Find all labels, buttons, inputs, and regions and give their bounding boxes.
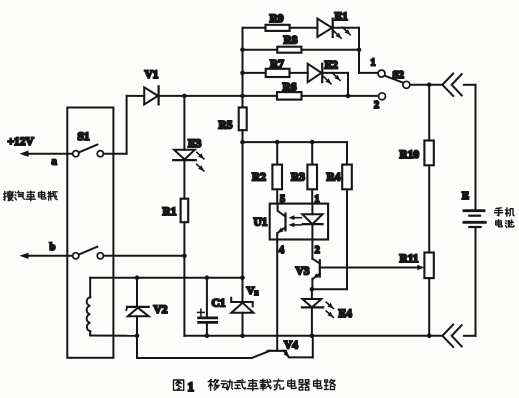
wire R6 row to S2 contact 2 <box>243 95 278 97</box>
resistor R8 <box>277 47 301 53</box>
svg-text:R6: R6 <box>283 82 297 94</box>
wire R3 leads <box>311 142 313 165</box>
resistor R7 <box>266 69 290 77</box>
resistor R4 <box>342 165 352 190</box>
caption 图1 <box>174 380 184 390</box>
wire R4 leads down to V3 emitter node <box>346 142 348 165</box>
svg-text:E2: E2 <box>325 60 339 72</box>
svg-text:b: b <box>50 242 56 253</box>
svg-text:1: 1 <box>315 194 320 205</box>
optocoupler U1 box <box>270 204 328 240</box>
U1 phototransistor <box>284 214 286 231</box>
wire V3 base to R11 wiper <box>320 267 421 269</box>
wire input b with arrow <box>26 255 73 257</box>
wire main from S1 through V1 <box>127 95 145 97</box>
svg-text:C1: C1 <box>212 298 226 310</box>
wire rail to R2 R3 R4 <box>243 141 348 143</box>
connector top <box>442 74 453 96</box>
resistor R3 <box>307 165 317 190</box>
svg-text:2: 2 <box>315 245 320 256</box>
caption 移动式车载充电器电路 <box>208 380 219 391</box>
wire b contact to R1 node <box>104 255 184 257</box>
transistor V4 <box>268 350 286 352</box>
svg-text:1: 1 <box>371 58 376 69</box>
svg-text:V4: V4 <box>284 339 298 351</box>
LED E4 <box>303 299 322 307</box>
svg-text:R1: R1 <box>163 206 177 218</box>
resistor R1 <box>181 199 189 223</box>
zener Vz <box>242 278 244 302</box>
resistor R6 <box>277 92 302 100</box>
capacitor C1 <box>206 278 208 317</box>
wire coil top rail <box>90 277 242 279</box>
svg-text:S2: S2 <box>393 69 404 81</box>
svg-text:E: E <box>462 191 469 202</box>
junction dots <box>240 47 245 52</box>
svg-text:Vz: Vz <box>247 285 259 297</box>
resistor R10 <box>424 141 433 166</box>
connector bottom <box>442 325 453 347</box>
resistor R2 <box>272 165 282 190</box>
U1 coupling arrows <box>292 217 301 219</box>
svg-text:5: 5 <box>280 194 285 205</box>
svg-text:R11: R11 <box>400 253 419 265</box>
battery E plates <box>464 209 484 212</box>
svg-text:V2: V2 <box>154 304 168 316</box>
switch S2 contact 2 <box>379 93 386 100</box>
wire coil bottom to V2 bottom <box>89 331 91 335</box>
svg-text:V3: V3 <box>296 265 310 277</box>
svg-text:V1: V1 <box>145 69 159 81</box>
resistor R9 <box>266 25 290 31</box>
wire V4 emitter return <box>289 356 313 358</box>
svg-text:R10: R10 <box>400 149 420 161</box>
svg-text:R7: R7 <box>270 58 284 70</box>
wire E4 to bottom rail <box>311 307 313 335</box>
potentiometer R11 <box>424 253 433 279</box>
wire bottom rail <box>184 335 442 337</box>
svg-text:a: a <box>52 157 58 168</box>
wire S2 pole to connector <box>410 84 442 86</box>
svg-text:E4: E4 <box>339 308 353 320</box>
wire riser from S1 contact a to V1 <box>126 96 128 154</box>
resistor R5 <box>239 107 247 130</box>
wire R7 row <box>243 72 266 74</box>
svg-text:E3: E3 <box>188 138 202 150</box>
label 接汽车电瓶 (connect car battery) <box>4 191 14 201</box>
wire main +V bus vertical x=242.5 <box>242 28 244 108</box>
wire R10 R11 column <box>428 85 430 141</box>
wire U1 pin4 down to V4 base <box>276 240 278 351</box>
svg-text:R3: R3 <box>291 171 305 183</box>
svg-text:R8: R8 <box>284 34 298 46</box>
relay coil L <box>89 278 91 298</box>
switch S1 pole b <box>73 253 79 259</box>
label 手机电池 (phone battery) <box>495 208 503 216</box>
svg-text:4: 4 <box>279 245 284 256</box>
diode V1 <box>144 87 158 104</box>
wire E3-R1 chain vertical <box>183 96 185 150</box>
wire battery bottom to lower connector <box>475 228 477 336</box>
switch S2 contact 1 <box>378 70 385 77</box>
wire input a with arrow <box>26 153 73 155</box>
svg-text:1: 1 <box>188 379 195 394</box>
LED E1 <box>317 19 332 37</box>
svg-text:R4: R4 <box>327 171 341 183</box>
wire R9 row <box>243 27 266 29</box>
diode V2 <box>136 278 138 307</box>
wire E1 cathode drop to R8 row and to S2 contact 1 <box>358 28 360 73</box>
wire V3 emitter node to E4 <box>311 289 313 299</box>
wire R2 leads <box>276 142 278 165</box>
svg-text:S1: S1 <box>78 131 90 143</box>
wire R8 row <box>243 49 278 51</box>
U1 led <box>302 214 322 224</box>
svg-text:R5: R5 <box>219 120 233 132</box>
svg-text:2: 2 <box>374 100 379 111</box>
svg-text:+12V: +12V <box>8 136 35 148</box>
transistor V3 <box>311 240 313 259</box>
switch S1 enclosure box <box>67 108 113 358</box>
svg-text:R2: R2 <box>252 171 266 183</box>
svg-text:E1: E1 <box>335 11 349 23</box>
svg-text:U1: U1 <box>254 216 268 228</box>
LED E2 <box>308 64 322 82</box>
switch S1 pole a <box>73 151 79 157</box>
wire connector to battery top <box>464 84 476 86</box>
LED E3 <box>174 150 195 160</box>
wire V2 drop to lower rail <box>136 336 138 358</box>
svg-text:R9: R9 <box>270 13 284 25</box>
wire E2 cathode drop <box>347 73 349 96</box>
switch S2 pole and blade <box>403 81 410 88</box>
